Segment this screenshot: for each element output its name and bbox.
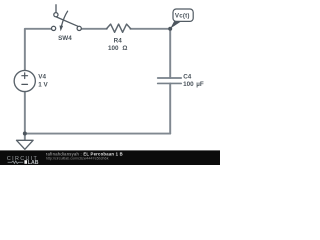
svg-text:100Ω: 100Ω [108, 45, 127, 52]
wire switch to resistor [81, 28, 107, 30]
wire bottom rail [25, 133, 170, 135]
switch SW4 left terminal [52, 26, 56, 30]
switch SW4 right terminal [77, 26, 81, 30]
wire node down to capacitor [169, 29, 171, 78]
svg-text:V4: V4 [38, 73, 46, 80]
node at resistor/capacitor junction [168, 27, 172, 31]
svg-text:SW4: SW4 [58, 35, 72, 42]
switch SW4 pivot knob [54, 13, 58, 17]
wire resistor to node [130, 28, 170, 30]
resistor R4 zigzag [107, 24, 131, 32]
footer bar [0, 150, 220, 165]
wire top-left corner [25, 29, 52, 71]
flag pointer wedge [170, 21, 181, 29]
ground symbol [17, 140, 34, 149]
switch SW4 arrow shaft [61, 11, 67, 26]
switch SW4 [56, 5, 78, 27]
svg-text:100µF: 100µF [183, 81, 204, 88]
switch SW4 lever [57, 17, 79, 26]
wire capacitor to bottom rail [169, 83, 171, 133]
V4 minus sign [22, 83, 28, 85]
footer logo LAB mark [24, 160, 27, 164]
footer logo wave [8, 161, 24, 164]
svg-text:C4: C4 [183, 74, 192, 81]
wire V4 bottom to rail [24, 92, 26, 134]
voltage source V4 circle [14, 70, 35, 91]
flag Vc(t) box [173, 9, 193, 21]
svg-text:R4: R4 [114, 37, 123, 44]
svg-text:Vc(t): Vc(t) [175, 12, 190, 19]
node at ground junction [23, 132, 27, 136]
capacitor C4 plates [158, 78, 182, 83]
switch SW4 stem [55, 5, 57, 13]
ground stem [24, 134, 26, 141]
switch SW4 arrowhead [60, 26, 64, 32]
svg-text:http://circuitlab.com/c6zw4447: http://circuitlab.com/c6zw4447e5b3h6k [46, 157, 109, 161]
svg-text:LAB: LAB [28, 160, 39, 165]
V4 plus sign [22, 73, 28, 85]
svg-text:1 V: 1 V [38, 81, 48, 88]
svg-text:rafinahdiansyah : EL Percobaan: rafinahdiansyah : EL Percobaan 1 B [46, 151, 123, 156]
